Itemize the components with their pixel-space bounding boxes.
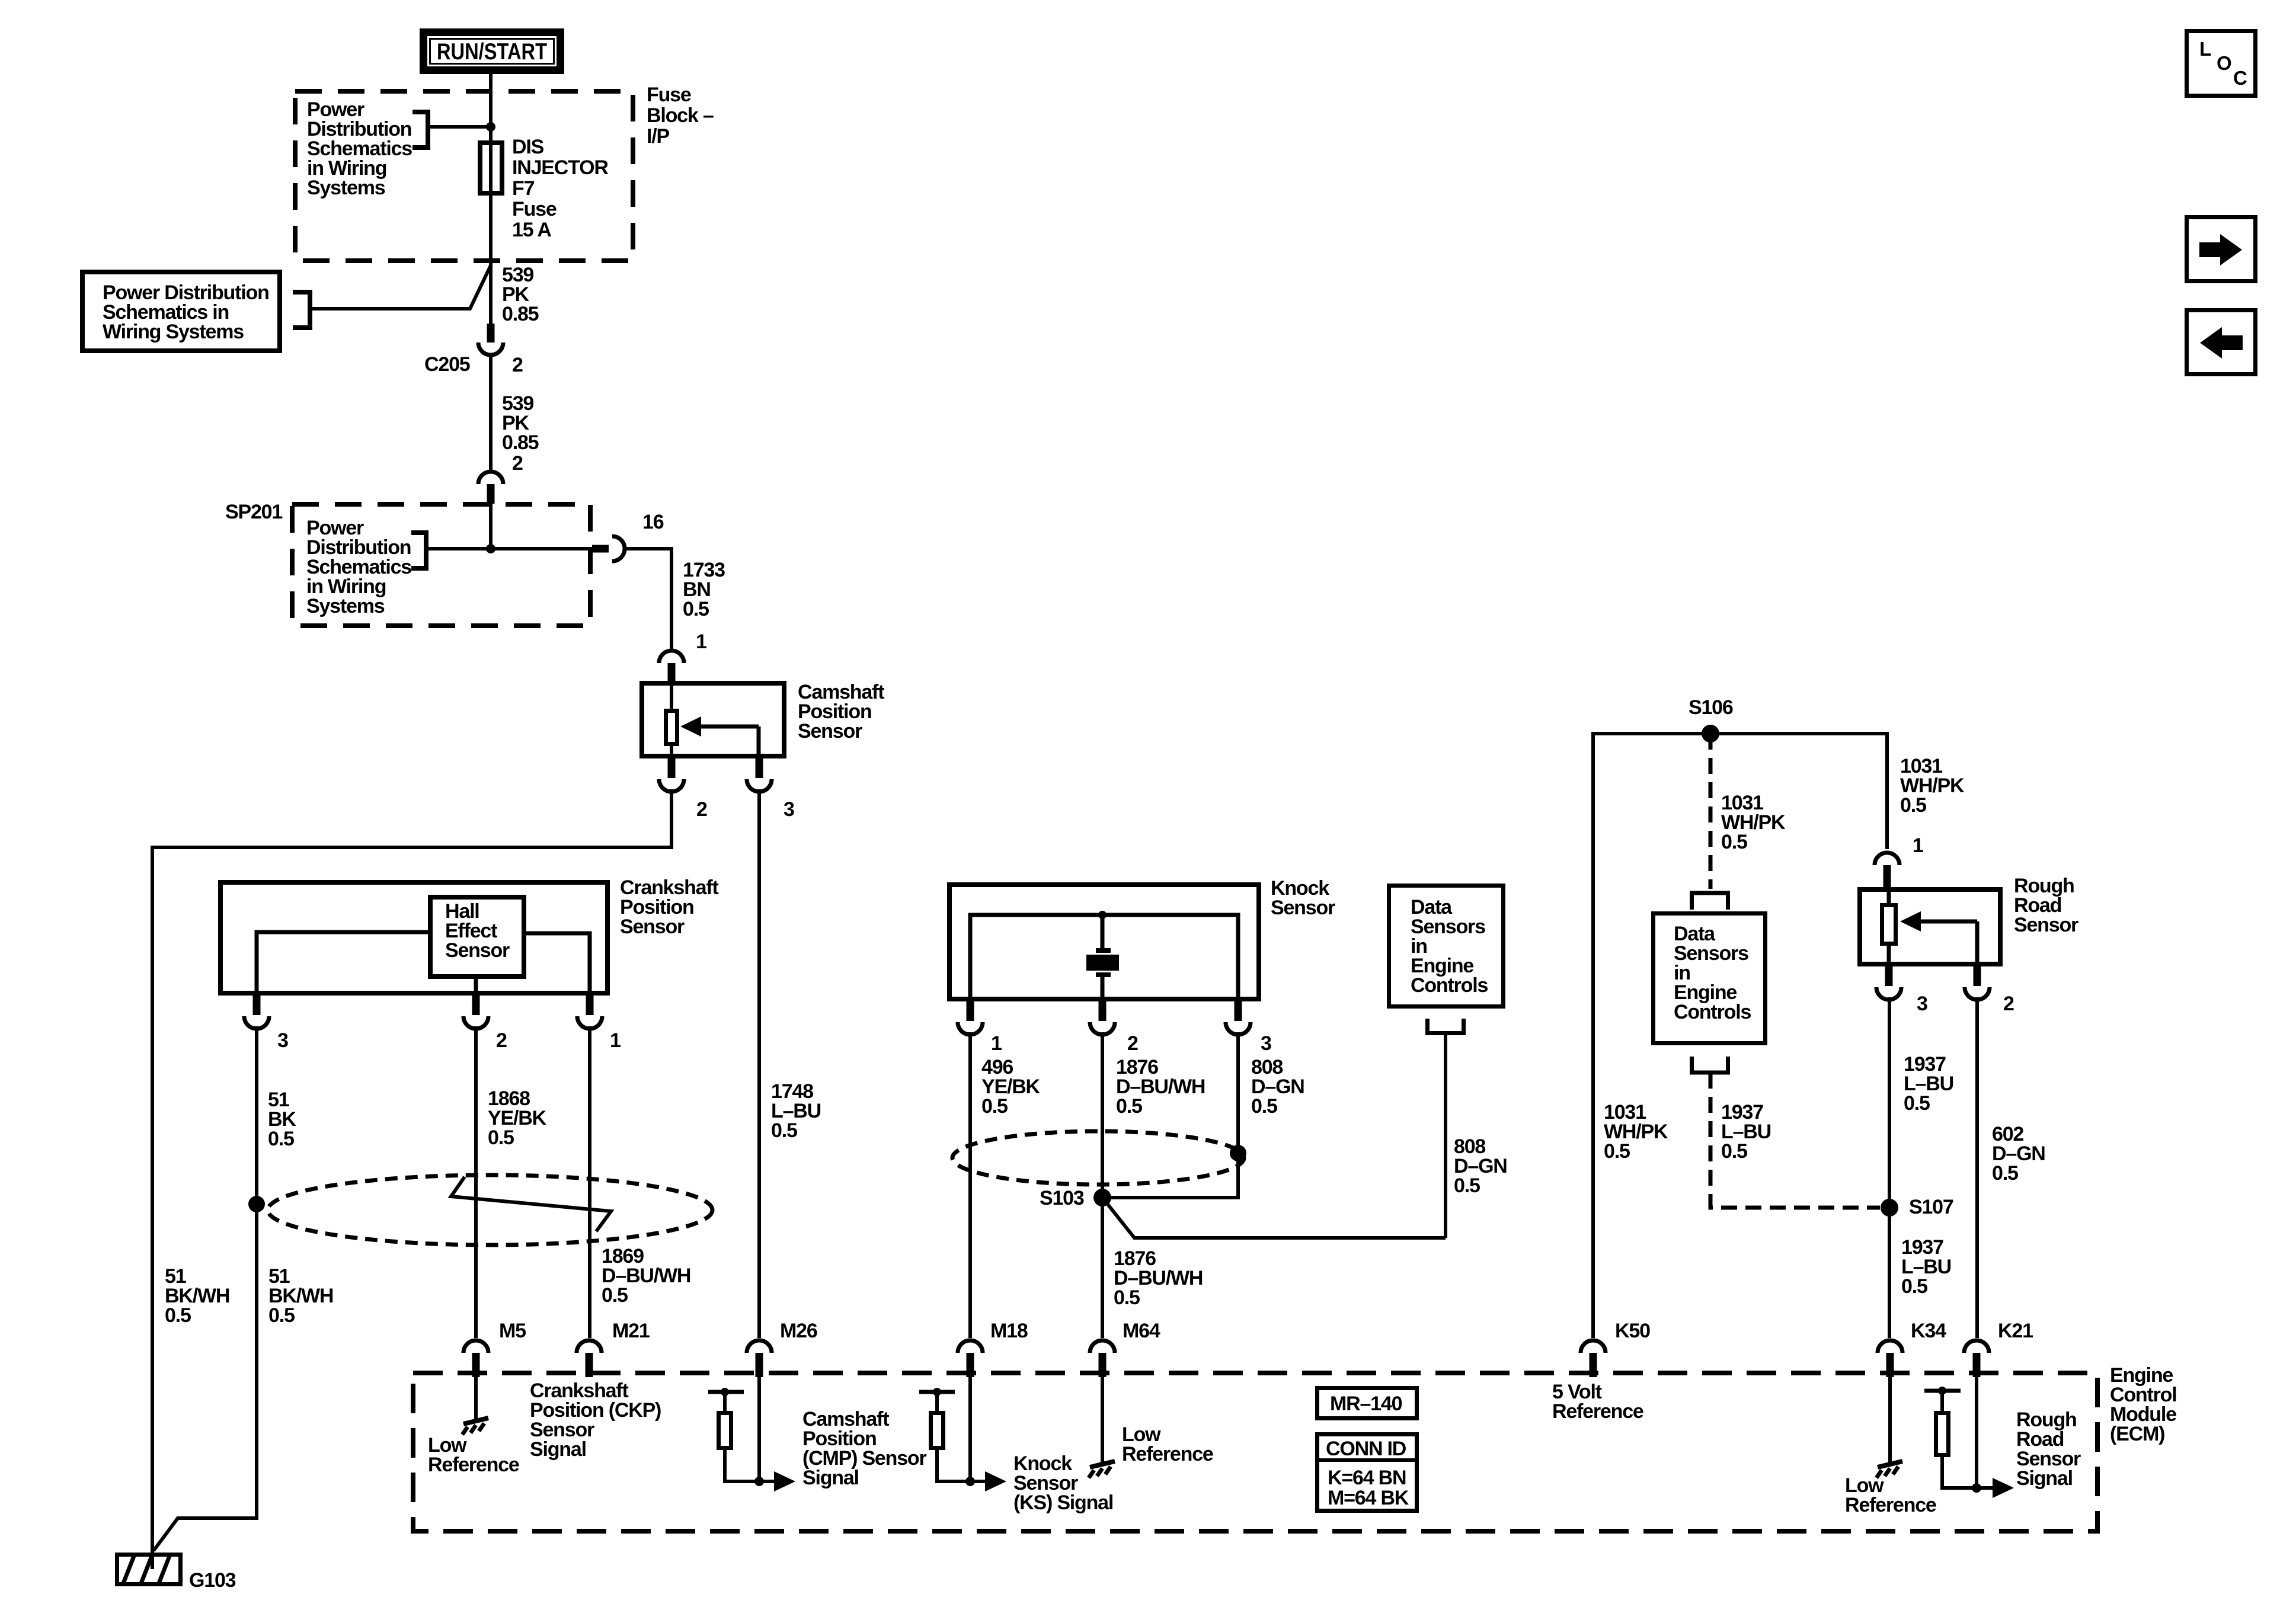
svg-text:16: 16 [642,511,664,533]
wire M18 internal [968,1377,972,1481]
wire 602 D-GN: rough pin 2 to K21 [1975,997,1979,1338]
svg-text:S106: S106 [1689,696,1733,719]
svg-text:M26: M26 [780,1320,817,1342]
svg-text:2: 2 [2003,993,2014,1015]
connector K21 [1964,1340,1989,1353]
rough road sensor arrow (wiper) [1920,920,1977,924]
connector pin 3 knock sensor [1235,1000,1242,1021]
ECM pull-up resistor at K21 [1924,1389,1961,1393]
bracket below data sensors box (knock) [1428,1019,1464,1033]
svg-text:Reference: Reference [1552,1400,1643,1423]
ground G103 symbol [117,1555,181,1585]
knock harness shield ellipse [952,1131,1244,1185]
svg-text:Fuse: Fuse [647,84,691,106]
svg-text:Signal: Signal [530,1438,586,1461]
wire K21 internal [1975,1377,1978,1488]
junction at M26 signal [754,1477,764,1486]
grid ref box MR-140 [1318,1388,1417,1419]
camshaft sensor internal wire [670,683,673,709]
fuse block I/P dashed box [295,91,633,261]
svg-text:K21: K21 [1998,1320,2033,1342]
svg-text:Fuse: Fuse [512,198,557,220]
wire: RUN/START to fuse F7 [489,74,493,140]
svg-text:0.5: 0.5 [1901,1275,1927,1298]
svg-text:Sensor: Sensor [2014,914,2078,936]
svg-text:2: 2 [496,1029,507,1052]
svg-text:K=64 BN: K=64 BN [1328,1467,1406,1489]
svg-text:Signal: Signal [802,1467,859,1489]
connector pin 2 knock sensor [1099,1000,1107,1021]
svg-text:3: 3 [1261,1032,1271,1055]
CKP harness shield ellipse [268,1175,712,1245]
connector C205 terminal stub [487,324,495,343]
svg-text:1: 1 [610,1029,621,1052]
connector pin 16 stub [592,545,609,553]
svg-text:M5: M5 [499,1320,526,1342]
svg-text:0.5: 0.5 [683,598,709,620]
crankshaft position sensor box [220,882,607,993]
svg-text:(ECM): (ECM) [2110,1423,2164,1445]
svg-text:RUN/START: RUN/START [437,39,547,65]
svg-text:0.5: 0.5 [488,1126,514,1149]
rough road sensor box [1860,889,2000,964]
connector M18 [958,1340,983,1353]
dashed wire 1937 L-BU to S107 [1710,1073,1880,1208]
connector pin 3 camshaft sensor [756,757,763,778]
CKP shield zigzag [451,1177,611,1231]
svg-text:2: 2 [696,798,707,821]
camshaft sensor resistor [666,711,677,744]
wire 1748 L-BU: cam pin 3 to M26 [757,789,761,1338]
svg-text:2: 2 [1127,1032,1138,1055]
svg-text:(KS) Signal: (KS) Signal [1013,1491,1113,1514]
LOC reference box [2187,31,2256,96]
bracket below data sensors box (right) [1692,1057,1728,1073]
junction node at fuse feed [486,122,495,132]
svg-text:3: 3 [784,798,794,821]
svg-text:0.5: 0.5 [1454,1174,1480,1197]
dashed wire 1031 WH/PK to data sensors [1709,734,1713,889]
connector M21 [577,1340,602,1353]
connector pin 1 crank sensor [586,994,594,1015]
svg-text:SP201: SP201 [225,501,282,523]
wire 1733 BN: pin 16 to camshaft sensor [624,549,671,649]
bracket (left ref box) [293,292,310,328]
svg-text:1: 1 [991,1032,1002,1055]
wire: bracket to node [428,125,491,129]
ECM pull-up resistor at M18 [919,1390,955,1394]
svg-text:Sensor: Sensor [1271,897,1335,919]
connector K50 [1581,1340,1606,1353]
svg-text:M=64 BK: M=64 BK [1328,1487,1409,1509]
svg-text:Reference: Reference [428,1454,519,1476]
connector cup into SP201 box [478,472,503,484]
svg-text:Controls: Controls [1674,1001,1751,1023]
back arrow box [2187,311,2256,375]
knock sensor piezo capacitor [1101,915,1105,948]
splice node SP201 [486,544,495,553]
svg-text:DIS: DIS [512,136,544,158]
svg-text:O: O [2217,52,2231,74]
connector pin 3 rough road sensor [1885,965,1893,986]
wire 1031 WH/PK: S106 to K50 and rough road pin 1 [1593,734,1887,1338]
junction at K21 signal [1972,1483,1981,1493]
svg-text:2: 2 [512,452,523,475]
wire 51 BK/WH: cam pin 2 to G103 [152,789,671,1569]
data sensors in engine controls box (knock) [1389,886,1504,1007]
switch feed label RUN/START [420,28,564,74]
svg-text:C205: C205 [424,353,470,376]
connector pin 2 camshaft sensor [668,757,676,778]
connector cup pin 1 camshaft sensor [659,651,684,663]
svg-text:Block –: Block – [647,104,714,127]
svg-text:0.5: 0.5 [1116,1095,1142,1118]
svg-text:Wiring Systems: Wiring Systems [103,321,244,343]
knock internal junction [1098,911,1107,919]
svg-text:G103: G103 [189,1569,236,1592]
svg-text:0.5: 0.5 [1251,1095,1277,1118]
svg-text:1: 1 [1913,834,1923,857]
hall effect sensor box [430,897,524,977]
svg-text:L: L [2199,38,2211,60]
connector C205 cup [478,343,503,355]
ECM internal ground at M5 [474,1377,478,1420]
svg-text:2: 2 [512,354,523,376]
connector cup pin 1 rough road sensor [1875,853,1900,865]
arrow CMP signal [759,1480,776,1483]
connector M64 [1090,1340,1115,1353]
camshaft sensor arrow (wiper) [699,725,759,729]
svg-text:M18: M18 [990,1320,1028,1342]
svg-text:0.5: 0.5 [1721,831,1747,853]
svg-text:Systems: Systems [307,177,385,199]
connector pin 2 rough road sensor [1974,965,1981,986]
svg-text:Reference: Reference [1122,1443,1213,1465]
svg-text:0.5: 0.5 [1900,794,1926,817]
svg-text:0.5: 0.5 [1721,1140,1747,1163]
svg-text:CONN ID: CONN ID [1326,1438,1406,1460]
svg-text:0.85: 0.85 [502,431,539,454]
camshaft position sensor box [642,683,784,756]
svg-text:3: 3 [1917,993,1927,1015]
splice S103 [1093,1189,1111,1206]
arrow rough road signal [1977,1486,1994,1490]
crank sensor internal wires [257,932,428,993]
svg-text:Sensor: Sensor [620,916,685,938]
svg-text:0.5: 0.5 [268,1304,295,1327]
wire 1876 D-BU/WH: knock pin 2 to M64 through S103 [1101,1032,1104,1338]
svg-text:INJECTOR: INJECTOR [512,156,608,179]
svg-text:0.5: 0.5 [1604,1140,1630,1163]
SP201 dashed box [292,504,590,626]
svg-text:Sensor: Sensor [445,939,510,962]
ECM internal ground at M64 [1101,1377,1104,1464]
engine control module ECM dashed box [413,1373,2097,1531]
connector M5 [463,1340,488,1353]
svg-text:15 A: 15 A [512,219,551,241]
rough road sensor resistor [1887,889,1891,903]
svg-text:Systems: Systems [306,595,385,617]
connector pin 3 crank sensor [253,994,261,1015]
svg-text:0.5: 0.5 [1114,1286,1140,1309]
wire splice SP201 horizontal [489,504,493,549]
data sensors in engine controls box (right) [1654,914,1766,1044]
svg-text:M21: M21 [612,1320,650,1342]
wire 539 PK: C205 to SP201 [489,353,493,470]
junction at M18 signal [965,1477,975,1486]
wire 1868 YE/BK: crank pin 2 to M5 [474,1026,478,1338]
wire: left ref box to main feed (diagonal) [310,265,491,309]
wire M26 internal [757,1377,761,1481]
wire 1937 L-BU: rough pin 3 to K34 through S107 [1888,997,1891,1338]
svg-text:0.5: 0.5 [771,1119,797,1142]
connector M26 [747,1340,772,1353]
wire 51 BK: crank pin 3 down [154,1026,257,1551]
svg-text:0.85: 0.85 [502,303,539,325]
bracket above data sensors box (right) [1692,893,1728,910]
svg-text:S103: S103 [1040,1187,1084,1209]
wire 1869 D-BU/WH: crank pin 1 to M21 [588,1026,591,1338]
svg-text:0.5: 0.5 [1992,1162,2018,1185]
splice node on 51 BK wire [248,1196,265,1212]
svg-text:K34: K34 [1911,1320,1946,1342]
svg-text:0.5: 0.5 [1904,1092,1930,1115]
connector K34 [1878,1340,1902,1353]
svg-text:F7: F7 [512,177,535,200]
ECM internal ground at K34 [1888,1377,1892,1464]
bracket (power distribution ref, fuse block) [412,112,428,148]
connector stub pin 1 camshaft sensor [668,663,676,681]
connector pin 1 knock sensor [967,1000,974,1021]
svg-text:0.5: 0.5 [981,1095,1008,1118]
svg-text:C: C [2233,67,2247,89]
svg-text:Signal: Signal [2016,1467,2073,1490]
svg-text:Reference: Reference [1845,1494,1936,1516]
bracket (SP201 ref) [411,533,426,568]
arrow KS signal [970,1480,987,1483]
wire 808 D-GN: S103 to data sensors [1102,1198,1446,1238]
splice node on 808 wire (ellipse) [1230,1145,1246,1161]
connector pin 16 cup [612,536,625,561]
knock sensor box [949,885,1259,999]
svg-text:M64: M64 [1123,1320,1160,1342]
svg-text:MR–140: MR–140 [1330,1393,1402,1415]
connector stub pin 1 rough road sensor [1884,865,1891,887]
CONN ID table [1318,1435,1417,1511]
svg-text:3: 3 [277,1029,288,1052]
splice S107 [1881,1199,1898,1217]
ref box Power Distribution Schematics in Wiring Systems (left) [82,272,280,351]
svg-text:0.5: 0.5 [165,1304,191,1327]
wire 808 D-GN: knock pin 3 to S103 [1102,1032,1238,1198]
connector stub into SP201 box [487,484,495,504]
fuse F7 DIS INJECTOR 15 A [480,143,502,193]
svg-text:Sensor: Sensor [798,720,862,742]
wire 496 YE/BK: knock pin 1 to M18 [968,1032,972,1338]
svg-text:K50: K50 [1615,1320,1650,1342]
knock sensor internal wires [970,915,1238,999]
ECM pull-up resistor at M26 [708,1390,744,1394]
svg-text:Controls: Controls [1411,974,1488,997]
svg-text:I/P: I/P [647,125,669,148]
splice S106 [1702,725,1719,742]
connector pin 2 crank sensor [472,994,480,1015]
svg-text:0.5: 0.5 [602,1284,628,1307]
svg-text:0.5: 0.5 [268,1128,294,1150]
wire 539 PK: fuse to C205 [489,193,493,325]
svg-text:S107: S107 [1909,1196,1953,1218]
svg-text:1: 1 [696,630,706,653]
forward arrow box [2187,217,2256,281]
